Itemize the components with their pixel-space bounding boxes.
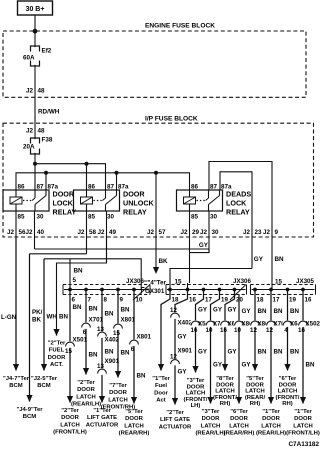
svg-text:16: 16 (220, 327, 227, 334)
svg-text:DOOR: DOOR (125, 416, 143, 422)
svg-text:J2: J2 (77, 229, 85, 236)
svg-text:LATCH: LATCH (186, 391, 206, 397)
svg-text:UNLOCK: UNLOCK (123, 199, 155, 208)
svg-text:GY: GY (178, 369, 188, 376)
svg-text:"8"Ter: "8"Ter (216, 376, 234, 382)
svg-text:GY: GY (242, 308, 252, 315)
svg-text:(FRONT/LH): (FRONT/LH) (53, 430, 87, 436)
svg-text:4: 4 (284, 327, 288, 334)
svg-text:X801: X801 (121, 317, 136, 324)
svg-text:X402: X402 (105, 337, 120, 344)
svg-text:60A: 60A (23, 55, 35, 62)
svg-text:BCM: BCM (9, 383, 23, 389)
svg-text:LIFT GATE: LIFT GATE (87, 415, 117, 421)
svg-text:WH: WH (47, 314, 58, 321)
svg-text:85: 85 (191, 214, 199, 221)
svg-text:17: 17 (273, 297, 280, 304)
svg-text:87: 87 (37, 184, 45, 191)
svg-text:BN: BN (59, 314, 68, 321)
svg-text:JX305: JX305 (296, 278, 314, 285)
svg-text:BN: BN (258, 349, 267, 356)
svg-text:BN: BN (73, 304, 82, 311)
svg-text:17: 17 (205, 297, 212, 304)
svg-text:85: 85 (18, 214, 26, 221)
svg-text:BK: BK (32, 317, 41, 324)
svg-text:GX301: GX301 (145, 288, 165, 295)
svg-text:DOOR: DOOR (48, 355, 66, 361)
svg-text:"2"Ter: "2"Ter (166, 410, 184, 416)
svg-text:DOOR: DOOR (77, 387, 95, 393)
svg-text:BCM: BCM (23, 414, 37, 420)
svg-text:BN: BN (306, 362, 315, 369)
svg-text:BN: BN (137, 373, 146, 380)
svg-text:ENGINE FUSE BLOCK: ENGINE FUSE BLOCK (145, 23, 215, 30)
svg-text:X502: X502 (306, 321, 320, 328)
svg-text:JX306: JX306 (233, 278, 251, 285)
svg-text:BN: BN (274, 349, 283, 356)
svg-text:"1"Ter: "1"Ter (262, 409, 280, 415)
svg-text:(FRONT/LH): (FRONT/LH) (286, 431, 320, 437)
svg-text:(REAR/LH): (REAR/LH) (71, 402, 101, 408)
svg-text:RH): RH) (282, 401, 293, 407)
svg-text:JX306: JX306 (126, 278, 144, 285)
svg-text:X801: X801 (137, 334, 152, 341)
svg-text:LIFT GATE: LIFT GATE (160, 417, 190, 423)
svg-text:J2: J2 (97, 229, 105, 236)
svg-text:J2: J2 (26, 88, 34, 95)
svg-text:GY: GY (213, 307, 223, 314)
svg-text:J2: J2 (147, 229, 155, 236)
svg-text:18: 18 (257, 297, 264, 304)
svg-text:LATCH: LATCH (108, 397, 128, 403)
svg-text:85: 85 (88, 214, 96, 221)
svg-text:13: 13 (97, 363, 104, 370)
svg-text:19: 19 (289, 297, 296, 304)
svg-text:10: 10 (206, 327, 213, 334)
svg-text:86: 86 (18, 184, 26, 191)
svg-text:9: 9 (275, 229, 279, 236)
svg-text:30: 30 (212, 229, 220, 236)
svg-text:(REAR/LH): (REAR/LH) (256, 431, 286, 437)
svg-text:DOOR: DOOR (246, 382, 264, 388)
svg-text:J2: J2 (180, 229, 188, 236)
svg-text:12: 12 (170, 353, 177, 360)
svg-text:X501: X501 (73, 337, 88, 344)
svg-text:20: 20 (236, 297, 243, 304)
svg-text:6: 6 (83, 329, 87, 336)
svg-text:29: 29 (192, 229, 200, 236)
svg-text:J2: J2 (243, 229, 251, 236)
svg-text:DOOR: DOOR (187, 384, 205, 390)
svg-text:(FRONT/: (FRONT/ (184, 397, 208, 403)
svg-text:Door: Door (154, 390, 168, 396)
svg-text:"3"Ter: "3"Ter (202, 409, 220, 415)
svg-text:57: 57 (159, 229, 167, 236)
svg-text:"3"Ter: "3"Ter (187, 378, 205, 384)
svg-text:RH): RH) (220, 401, 231, 407)
svg-text:F38: F38 (42, 137, 53, 144)
svg-text:BK: BK (159, 258, 169, 265)
svg-text:GY: GY (199, 242, 209, 249)
svg-text:BN: BN (258, 308, 267, 315)
svg-text:20A: 20A (23, 144, 35, 151)
svg-text:13: 13 (97, 326, 104, 333)
svg-text:ACTUATOR: ACTUATOR (86, 422, 119, 428)
svg-text:I/P FUSE BLOCK: I/P FUSE BLOCK (145, 115, 198, 122)
svg-text:BN: BN (290, 308, 299, 315)
svg-text:48: 48 (38, 88, 46, 95)
svg-text:RELAY: RELAY (123, 208, 147, 217)
svg-text:BN: BN (121, 307, 130, 314)
svg-text:DOOR: DOOR (123, 190, 145, 199)
svg-text:18: 18 (172, 297, 179, 304)
svg-text:X901: X901 (178, 348, 193, 355)
svg-text:BN: BN (274, 308, 283, 315)
svg-text:PK/: PK/ (32, 309, 43, 316)
svg-text:BN: BN (105, 349, 114, 356)
svg-text:6: 6 (131, 346, 135, 353)
svg-text:"5"Ter: "5"Ter (125, 409, 143, 415)
svg-text:(REAR/: (REAR/ (245, 395, 266, 401)
svg-text:BN: BN (89, 352, 98, 359)
svg-text:X402: X402 (178, 320, 193, 327)
svg-text:GY: GY (254, 256, 264, 263)
svg-text:16: 16 (305, 297, 312, 304)
svg-text:48: 48 (38, 128, 46, 135)
svg-text:30: 30 (37, 214, 45, 221)
svg-text:GY: GY (178, 334, 188, 341)
svg-text:J2: J2 (26, 128, 34, 135)
svg-text:FUEL: FUEL (49, 348, 65, 354)
svg-text:ACTUATOR: ACTUATOR (159, 424, 192, 430)
svg-text:LATCH: LATCH (215, 389, 235, 395)
svg-text:LATCH: LATCH (76, 394, 96, 400)
svg-text:DOOR: DOOR (294, 416, 312, 422)
svg-text:5: 5 (73, 277, 77, 284)
svg-text:J2: J2 (200, 229, 208, 236)
svg-text:ACT.: ACT. (50, 362, 63, 368)
svg-text:12: 12 (266, 327, 273, 334)
svg-text:49: 49 (109, 229, 117, 236)
svg-text:BN: BN (74, 268, 84, 275)
svg-text:6: 6 (72, 297, 76, 304)
svg-text:GY: GY (198, 349, 208, 356)
svg-text:RELAY: RELAY (226, 208, 250, 217)
svg-text:LATCH: LATCH (124, 423, 144, 429)
svg-text:RD/WH: RD/WH (38, 109, 60, 116)
svg-text:LATCH: LATCH (229, 423, 249, 429)
svg-text:GY: GY (228, 307, 238, 314)
svg-text:40: 40 (37, 229, 45, 236)
svg-text:LATCH: LATCH (293, 423, 313, 429)
svg-text:"J4-9"Ter: "J4-9"Ter (16, 407, 43, 413)
svg-text:15: 15 (65, 348, 72, 355)
svg-text:7: 7 (88, 297, 92, 304)
svg-text:(FRONT/: (FRONT/ (213, 395, 237, 401)
svg-text:C7A13182: C7A13182 (288, 441, 319, 448)
svg-text:DOOR: DOOR (109, 390, 127, 396)
svg-text:LOCK: LOCK (53, 199, 74, 208)
svg-text:30: 30 (107, 214, 115, 221)
svg-text:(REAR/LH): (REAR/LH) (195, 431, 225, 437)
svg-text:"J2-5"Ter: "J2-5"Ter (31, 376, 58, 382)
svg-text:LOCK: LOCK (226, 199, 247, 208)
svg-text:87: 87 (210, 184, 218, 191)
svg-text:BN: BN (105, 311, 114, 318)
svg-text:"6"Ter: "6"Ter (279, 376, 297, 382)
svg-text:J2: J2 (7, 229, 15, 236)
svg-text:(FRONT/: (FRONT/ (276, 395, 300, 401)
svg-text:10: 10 (136, 297, 143, 304)
svg-text:J2: J2 (263, 229, 271, 236)
svg-text:J2: J2 (25, 229, 33, 236)
svg-text:30: 30 (210, 214, 218, 221)
svg-text:12: 12 (170, 307, 177, 314)
svg-text:86: 86 (191, 184, 199, 191)
svg-text:BCM: BCM (37, 383, 51, 389)
svg-text:Act: Act (156, 398, 166, 404)
svg-text:DOOR: DOOR (216, 382, 234, 388)
svg-text:"6"Ter: "6"Ter (230, 409, 248, 415)
svg-text:"5"Ter: "5"Ter (246, 376, 264, 382)
svg-text:RELAY: RELAY (53, 208, 77, 217)
svg-text:"2"Ter: "2"Ter (61, 408, 79, 414)
svg-text:15: 15 (113, 330, 120, 337)
svg-text:LATCH: LATCH (245, 389, 265, 395)
svg-text:LATCH: LATCH (261, 423, 281, 429)
svg-text:LH): LH) (191, 403, 201, 409)
svg-text:"2"Ter: "2"Ter (77, 380, 95, 386)
svg-text:"1"Ter: "1"Ter (294, 409, 312, 415)
svg-text:"1"Ter: "1"Ter (152, 376, 170, 382)
svg-text:DEADS: DEADS (226, 190, 251, 199)
svg-text:16: 16 (189, 297, 196, 304)
svg-text:12: 12 (250, 327, 257, 334)
svg-text:23: 23 (255, 229, 263, 236)
svg-text:BN: BN (275, 256, 285, 263)
svg-text:"7"Ter: "7"Ter (109, 383, 127, 389)
svg-text:LATCH: LATCH (60, 422, 80, 428)
svg-text:(REAR/RH): (REAR/RH) (224, 431, 255, 437)
svg-text:9: 9 (120, 297, 124, 304)
svg-text:GY: GY (242, 362, 252, 369)
svg-text:BN: BN (290, 349, 299, 356)
svg-text:(REAR/RH): (REAR/RH) (119, 431, 150, 437)
svg-text:L-GN: L-GN (1, 314, 17, 321)
svg-text:8: 8 (104, 297, 108, 304)
svg-text:"2"Ter: "2"Ter (48, 341, 66, 347)
svg-text:Fuel: Fuel (155, 383, 167, 389)
svg-text:DOOR: DOOR (262, 416, 280, 422)
svg-text:LATCH: LATCH (201, 423, 221, 429)
svg-text:X701: X701 (89, 317, 104, 324)
svg-text:GY: GY (198, 307, 208, 314)
svg-text:RH): RH) (250, 401, 261, 407)
svg-text:DOOR: DOOR (61, 415, 79, 421)
svg-text:"J4-7"Ter: "J4-7"Ter (3, 376, 30, 382)
svg-text:DOOR: DOOR (230, 416, 248, 422)
svg-text:DOOR: DOOR (53, 190, 75, 199)
svg-text:86: 86 (88, 184, 96, 191)
svg-text:GY: GY (213, 362, 223, 369)
svg-text:30 B+: 30 B+ (26, 6, 45, 13)
svg-text:BN: BN (121, 350, 130, 357)
svg-text:58: 58 (89, 229, 97, 236)
svg-text:GY: GY (228, 349, 238, 356)
svg-text:X901: X901 (105, 358, 120, 365)
svg-text:16: 16 (298, 327, 305, 334)
svg-text:87: 87 (107, 184, 115, 191)
svg-text:BN: BN (89, 306, 98, 313)
svg-text:10: 10 (234, 327, 241, 334)
svg-text:DOOR: DOOR (279, 382, 297, 388)
svg-text:Ef2: Ef2 (42, 48, 52, 55)
svg-text:LATCH: LATCH (278, 389, 298, 395)
svg-text:16: 16 (191, 327, 198, 334)
svg-text:DOOR: DOOR (202, 416, 220, 422)
